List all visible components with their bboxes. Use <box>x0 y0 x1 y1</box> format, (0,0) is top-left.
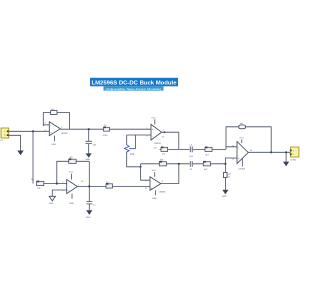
wire U5 output <box>248 151 290 153</box>
wire J1 down <box>32 131 34 183</box>
wire R1 to U2 <box>44 183 67 185</box>
wire rail2 right down <box>224 164 226 173</box>
op-amp U1 <box>45 122 64 136</box>
op-amp U2 <box>67 180 78 194</box>
diode D1 <box>103 125 110 137</box>
wire feedback down through J3 <box>88 161 90 201</box>
wire U3 vcc stub <box>154 119 156 124</box>
wire rail1 to U5 input <box>226 147 237 150</box>
wire U1 inverting stub <box>43 124 49 126</box>
ground U2 input <box>49 196 55 201</box>
svg-text:LM358: LM358 <box>61 133 68 135</box>
node U3 output <box>164 131 166 133</box>
svg-text:CON2: CON2 <box>290 159 297 161</box>
connector P1 <box>1 128 9 142</box>
svg-text:(Adjustable Step-Down Module): (Adjustable Step-Down Module) <box>106 87 162 91</box>
wire pot wiper up <box>135 135 137 149</box>
svg-text:LM2596S DC-DC Buck Module: LM2596S DC-DC Buck Module <box>92 80 177 86</box>
svg-text:GND: GND <box>222 196 227 198</box>
wire U1 power stub <box>54 136 56 142</box>
wire U2 power stub <box>71 194 73 199</box>
svg-text:10k: 10k <box>130 152 135 156</box>
svg-text:GND: GND <box>51 144 56 146</box>
title banner line 2 <box>104 86 164 91</box>
op-amp U5 feedback wire <box>226 127 271 153</box>
capacitor C5 <box>189 145 193 158</box>
wire rail2 up to U5 input <box>225 158 237 164</box>
svg-text:LM358: LM358 <box>238 169 245 171</box>
wire U4 power stub <box>154 190 156 195</box>
svg-text:1C: 1C <box>162 137 165 139</box>
wire U5 power stub <box>241 158 243 166</box>
wire input bottom pin to ground <box>9 135 21 150</box>
U2 pin numbers <box>62 182 80 192</box>
svg-text:-: - <box>68 182 69 185</box>
resistor R7 <box>224 172 232 178</box>
op-amp U3 <box>151 124 162 140</box>
svg-text:GND: GND <box>69 203 74 205</box>
svg-text:VCC: VCC <box>151 117 156 119</box>
capacitor C1 <box>86 141 97 146</box>
U5 pin numbers <box>232 145 253 160</box>
op-amp U1 feedback wire <box>43 113 69 129</box>
title banner line 1 <box>90 78 178 87</box>
svg-text:LM358: LM358 <box>159 192 166 194</box>
svg-text:-: - <box>238 145 239 149</box>
op-amp U2 feedback wire <box>57 161 90 183</box>
svg-text:-: - <box>151 180 152 183</box>
resistor R2 <box>51 109 57 115</box>
node pot bottom <box>140 166 142 168</box>
resistor R1 <box>31 179 44 190</box>
node feedback join <box>270 151 272 153</box>
node J3 <box>88 185 90 187</box>
wire pot node to U3 <box>127 134 151 136</box>
resistor R6 <box>159 159 166 166</box>
wire rail2 left down to U4 input <box>141 164 150 180</box>
wire U3 output <box>162 131 179 133</box>
resistor R5 <box>203 161 210 171</box>
op-amp U5 <box>237 142 248 164</box>
wire C6 to ground <box>88 204 90 210</box>
svg-text:VCC: VCC <box>239 138 244 140</box>
resistor R3 <box>69 157 76 163</box>
svg-text:LM358: LM358 <box>154 143 161 145</box>
rail 2 wire <box>141 163 226 165</box>
resistor R9 <box>239 123 246 128</box>
wire v1 down to rail1 <box>178 132 180 149</box>
ground left input <box>17 151 23 156</box>
node rail2 right <box>224 163 226 165</box>
node J4 <box>56 182 58 184</box>
U3 pin numbers <box>147 128 165 137</box>
U4 pin numbers <box>145 180 164 189</box>
node J2 <box>88 128 90 130</box>
wire U2 noninverting to ground <box>52 190 66 196</box>
diode D4 <box>205 147 212 157</box>
capacitor C6 <box>86 202 96 207</box>
svg-text:-: - <box>50 124 51 127</box>
ground C1 <box>86 153 92 157</box>
rail 1 wire <box>160 148 227 150</box>
wire C1 to ground <box>88 144 90 154</box>
wire U2 output <box>77 185 150 187</box>
svg-text:GND: GND <box>49 203 54 205</box>
node J1 <box>32 130 34 132</box>
wire J2 down <box>88 129 90 141</box>
wire U2 vcc stub <box>71 174 73 180</box>
wire pot bottom <box>127 152 141 167</box>
diode D2 <box>106 182 113 188</box>
wire input top pin <box>9 130 50 132</box>
wire U1 output rail <box>60 128 151 130</box>
capacitor C4 <box>189 161 193 171</box>
wire U5 vcc stub <box>241 140 243 144</box>
diode D3 <box>161 147 168 156</box>
svg-text:GND: GND <box>86 217 91 219</box>
ground R7 <box>222 190 228 195</box>
ground output <box>283 162 289 167</box>
wire v2 down to U4 output <box>161 164 179 184</box>
svg-text:GND: GND <box>85 159 90 161</box>
wire U4 vcc stub <box>154 172 156 177</box>
svg-text:GND: GND <box>152 198 157 200</box>
potentiometer RP1 <box>125 135 136 156</box>
svg-text:-: - <box>152 135 153 138</box>
op-amp U4 <box>150 177 161 191</box>
wire output to ground <box>285 152 287 161</box>
svg-text:VCC: VCC <box>69 172 74 174</box>
svg-text:4148: 4148 <box>103 135 109 137</box>
ground C6 <box>86 210 92 215</box>
node rail2 J5 <box>178 163 180 165</box>
wire R7 to ground <box>224 178 226 190</box>
svg-text:VCC: VCC <box>152 170 157 172</box>
node output join <box>285 151 287 153</box>
connector P2 <box>290 147 299 161</box>
